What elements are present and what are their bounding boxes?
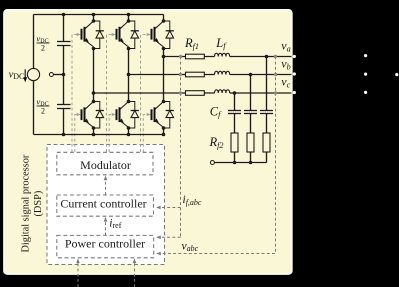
leg 2 upper wire	[128, 15, 130, 22]
svg-text:2: 2	[41, 44, 45, 53]
inductor Lf phase b	[215, 71, 230, 74]
IGBT Q1 (top, leg 1)	[85, 21, 94, 29]
reference input arrow 2	[134, 259, 136, 287]
schematic canvas	[4, 10, 292, 275]
svg-text:Digital signal processor: Digital signal processor	[21, 154, 32, 252]
IGBT Q5 (top, leg 3)	[155, 21, 164, 29]
leg 1 upper wire	[93, 15, 95, 22]
svg-text:Modulator: Modulator	[80, 158, 131, 172]
diode D6 (antiparallel, bottom leg 3)	[164, 102, 170, 111]
resistor Rf1 phase b	[186, 72, 205, 77]
gate drive line, top IGBT leg 1	[72, 35, 80, 153]
Power controller block	[57, 235, 154, 257]
midpoint wire	[93, 49, 95, 102]
filter branch node phase c	[233, 91, 237, 95]
DC source Vdc	[27, 68, 39, 80]
resistor Rf1 phase c	[186, 91, 205, 96]
capacitor Cf phase c	[228, 110, 241, 112]
Current controller block	[57, 195, 154, 216]
phase node leg 3	[162, 47, 166, 51]
terminal dots (phase line ends)	[293, 55, 296, 58]
svg-text:Current controller: Current controller	[60, 197, 146, 211]
DC-link cap bus junctions	[62, 13, 66, 17]
inductor Lf phase c	[215, 90, 230, 93]
wire down to Cf phase c	[234, 93, 236, 111]
phase c wire (from leg 1)	[94, 92, 215, 94]
gate drive line, bottom IGBT leg 1	[75, 115, 80, 153]
svg-text:2: 2	[41, 107, 45, 116]
diode D3 (antiparallel, top leg 2)	[129, 21, 135, 31]
IGBT Q6 (bottom, leg 3)	[155, 102, 164, 110]
arrow power controller to current controller (i_ref)	[105, 218, 107, 236]
wire down to Cf phase a	[266, 57, 268, 111]
midpoint wire	[163, 49, 165, 102]
inductor Lf phase a	[215, 53, 230, 56]
svg-text:vDC: vDC	[9, 70, 25, 82]
v taps	[274, 55, 277, 58]
gate drive line, bottom IGBT leg 2	[109, 115, 115, 153]
grid continuation dots	[364, 54, 367, 57]
Vdc direction arrow	[24, 69, 26, 79]
i_f taps	[179, 55, 182, 58]
capacitor Cf phase b	[244, 110, 257, 112]
capacitor Cf phase a	[260, 110, 273, 112]
gate drive line, top IGBT leg 2	[107, 35, 115, 153]
phase node leg 1	[92, 47, 96, 51]
IGBT Q2 (bottom, leg 1)	[85, 102, 94, 110]
left DC wire	[33, 15, 35, 69]
filter neutral wire	[214, 162, 266, 164]
reference input arrow 1	[77, 259, 79, 287]
top DC bus wire	[34, 14, 164, 16]
gate drive line, top IGBT leg 3	[141, 35, 150, 153]
svg-text:Power controller: Power controller	[65, 237, 145, 251]
emitter to bus wire	[93, 128, 95, 135]
diode D1 (antiparallel, top leg 1)	[94, 21, 100, 31]
capacitor lower DC-link C2	[63, 75, 65, 105]
resistor Rf2 phase b	[247, 133, 254, 152]
diode D2 (antiparallel, bottom leg 1)	[94, 102, 100, 111]
arrow current controller to modulator	[105, 176, 107, 195]
filter branch node phase b	[249, 73, 253, 77]
current measurement line i_f,abc	[180, 57, 182, 238]
DSP block (Digital signal processor)	[47, 145, 165, 265]
filter branch node phase a	[265, 55, 269, 59]
phase b wire (from leg 2)	[129, 74, 215, 76]
emitter to bus wire	[128, 128, 130, 135]
emitter to bus wire	[163, 128, 165, 135]
gate drive line, bottom IGBT leg 3	[143, 115, 150, 153]
resistor Rf1 phase a	[186, 54, 205, 59]
leg 3 upper wire	[163, 15, 165, 22]
bottom DC bus wire	[34, 134, 164, 136]
wire down to Cf phase b	[250, 75, 252, 111]
diode D5 (antiparallel, top leg 3)	[164, 21, 170, 31]
DC midpoint node	[53, 74, 63, 76]
midpoint wire	[128, 49, 130, 102]
resistor Rf2 phase a	[263, 133, 270, 152]
voltage measurement line v_abc	[158, 57, 275, 254]
capacitor upper DC-link C1	[63, 15, 65, 42]
resistor Rf2 phase c	[231, 133, 238, 152]
phase a wire (from leg 3)	[164, 56, 215, 58]
svg-text:(DSP): (DSP)	[33, 191, 44, 217]
Modulator block	[57, 152, 153, 175]
phase node leg 2	[127, 47, 131, 51]
filter neutral terminal	[210, 161, 214, 165]
IGBT Q4 (bottom, leg 2)	[120, 102, 129, 110]
IGBT Q3 (top, leg 2)	[120, 21, 129, 29]
diode D4 (antiparallel, bottom leg 2)	[129, 102, 135, 111]
